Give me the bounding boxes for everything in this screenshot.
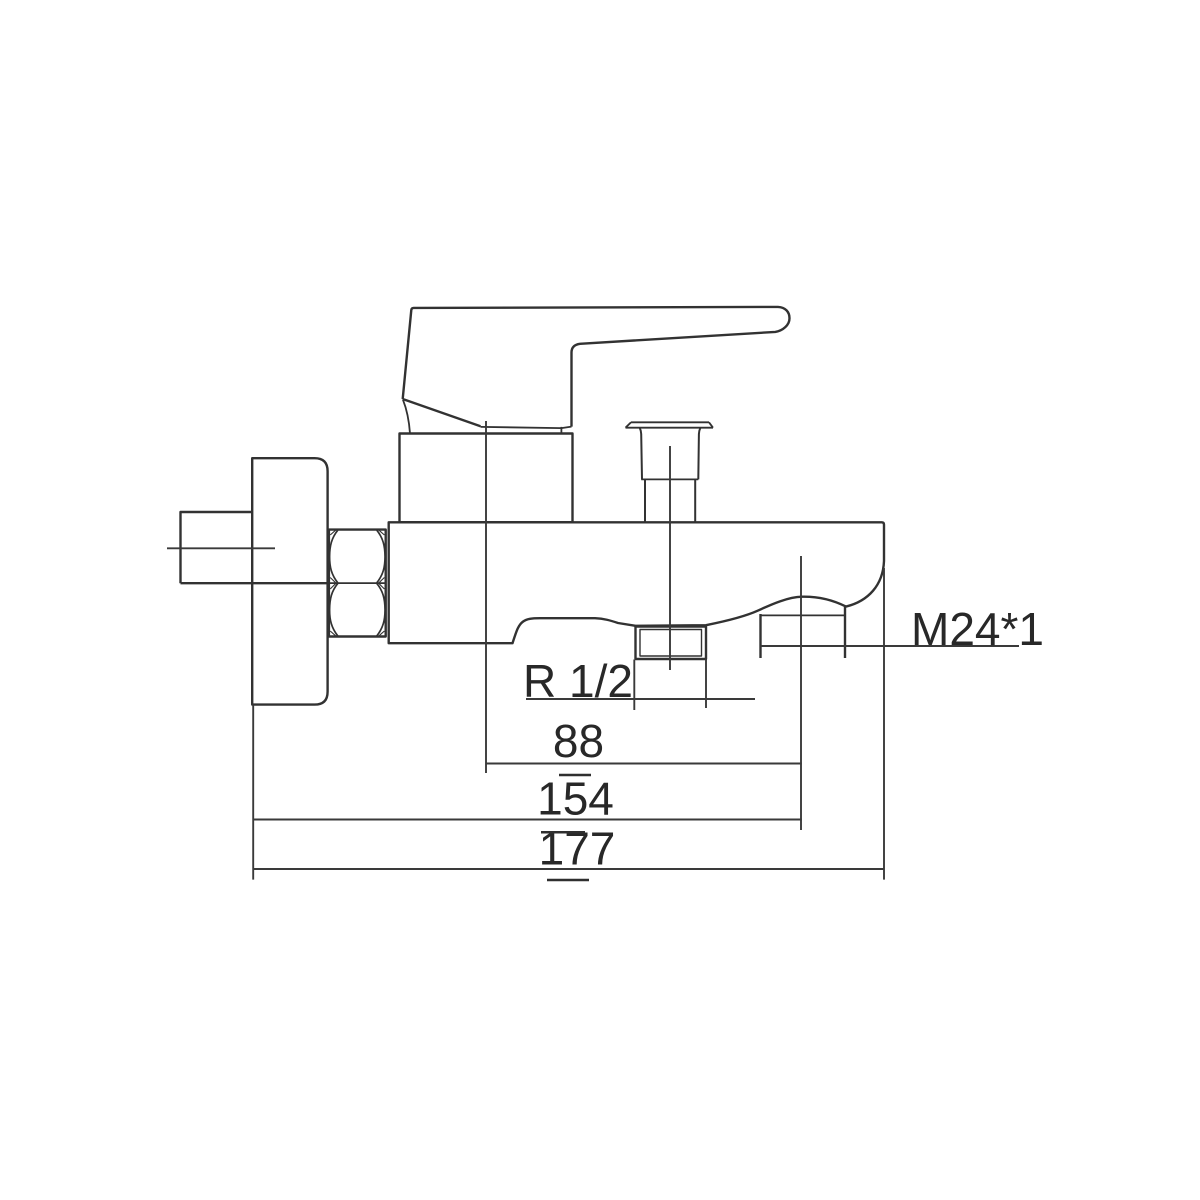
hex nut lower chamfer arcs (330, 583, 385, 636)
R 1/2 leader line (526, 698, 755, 700)
shower port right edge (844, 607, 846, 658)
diverter knob stem (645, 479, 695, 521)
diverter knob tapered neck (640, 428, 701, 479)
dim line 154 (253, 819, 802, 821)
shower port centerline (800, 556, 802, 830)
dim line 88 (486, 763, 802, 765)
cartridge cap rectangle (400, 434, 573, 523)
right extension line (883, 568, 885, 880)
underbar below 177 (547, 879, 589, 882)
hex nut upper chamfer arcs (330, 530, 385, 583)
handle base front slope (403, 399, 481, 426)
svg-text:88: 88 (553, 715, 604, 767)
hex nut outer rect (329, 530, 386, 637)
svg-text:M24*1: M24*1 (911, 603, 1044, 655)
shower port left edge (759, 614, 761, 658)
svg-text:R 1/2: R 1/2 (523, 655, 633, 707)
faucet body outline (389, 522, 884, 643)
hex nut mid line (329, 582, 386, 584)
shower port shoulder line (761, 614, 845, 616)
overline above 177 (541, 831, 585, 834)
cartridge centerline (485, 421, 487, 773)
nipple extension line right (705, 660, 707, 709)
handle base seam line (481, 427, 572, 429)
wall pipe centerline (167, 547, 275, 549)
nipple extension line left (633, 660, 635, 711)
wall pipe stub (181, 512, 329, 583)
handle seam vertical tick (560, 427, 562, 434)
diverter knob shoulder (641, 478, 698, 480)
hex nut corner chamfers (330, 530, 384, 635)
inlet nipple thread lines (640, 630, 702, 657)
wall escutcheon flange (252, 458, 327, 704)
left extension line (252, 705, 254, 880)
overline above 154 (559, 774, 591, 777)
inlet nipple outer rect (636, 627, 707, 660)
svg-text:154: 154 (537, 773, 614, 825)
dim line 177 (253, 868, 884, 870)
diverter knob flange (626, 422, 714, 427)
handle base left arc (403, 400, 410, 434)
svg-text:177: 177 (539, 823, 616, 875)
handle lever outline (403, 307, 790, 427)
diverter centerline (669, 446, 671, 670)
M24*1 leader line (761, 645, 1020, 647)
